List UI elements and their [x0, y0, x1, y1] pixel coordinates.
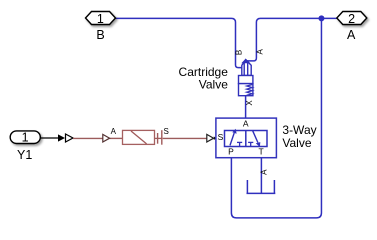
wire: cartridge valve A port up and right to port A hexagon	[246, 18, 337, 61]
svg-text:A: A	[347, 28, 356, 42]
svg-text:T: T	[258, 146, 263, 156]
svg-text:S: S	[218, 132, 224, 142]
svg-text:A: A	[256, 48, 265, 54]
open triangle at red block input A	[103, 134, 110, 142]
port B hexagon (Inport 1)	[86, 12, 116, 25]
junction dot on wire near port A	[318, 15, 324, 21]
cartridge valve U1: spring box	[239, 84, 253, 96]
svg-text:X: X	[245, 100, 254, 106]
wire stub from triangle A into red block	[109, 137, 122, 139]
svg-text:3-Way: 3-Way	[282, 123, 316, 137]
svg-text:A: A	[111, 127, 117, 136]
left box blocked port tee	[237, 141, 242, 143]
wire: cartridge valve X port down to 3-way valve A port	[245, 96, 247, 118]
svg-text:1: 1	[22, 131, 29, 145]
svg-text:S: S	[164, 127, 169, 136]
svg-text:Valve: Valve	[282, 136, 311, 150]
svg-text:B: B	[235, 50, 244, 55]
3-way valve inner divider	[245, 131, 247, 147]
svg-text:Y1: Y1	[17, 148, 32, 162]
open triangle port marker after arrow	[66, 134, 74, 142]
wire: big loop from junction down, across bottom, to 3-way valve P port	[231, 18, 321, 218]
red block diagonal line	[131, 131, 147, 144]
svg-text:1: 1	[97, 12, 104, 26]
svg-text:Valve: Valve	[199, 78, 228, 92]
wire: port B to cartridge valve B port (hydraulic, blue)	[116, 18, 242, 67]
right box flow arrow (down)	[253, 131, 258, 143]
red block output stub	[155, 137, 163, 139]
svg-text:2: 2	[348, 12, 355, 26]
svg-text:A: A	[243, 118, 249, 128]
3-way valve inner symbol rectangle	[225, 131, 268, 147]
cartridge valve U1: spring zigzag	[247, 85, 253, 96]
right box blocked port tee	[248, 141, 253, 143]
port A hexagon (Inport 2)	[337, 12, 367, 25]
cartridge valve U1: middle chamber box	[239, 76, 253, 84]
solid port marker on 3-way valve edge	[214, 136, 217, 140]
svg-text:A: A	[259, 169, 268, 175]
tank (hydraulic reference) symbol	[247, 180, 276, 193]
red block output double bars	[157, 133, 159, 144]
physical signal wire to red block (pale red)	[73, 137, 103, 139]
signal wire from Y1 (black)	[40, 137, 59, 139]
svg-text:B: B	[96, 28, 104, 42]
solid arrowhead on signal wire	[58, 134, 65, 141]
left box flow arrow (up)	[230, 133, 234, 145]
open triangle at 3-way valve S input	[207, 134, 214, 142]
svg-text:P: P	[228, 146, 234, 156]
red block (valve actuator) body	[123, 130, 155, 144]
input port Y1 (stadium block)	[10, 131, 40, 144]
physical signal wire from red block to 3-way valve (pale red)	[163, 137, 207, 139]
3-way valve block outer rectangle	[216, 118, 277, 158]
cartridge valve U1: poppet pentagon	[242, 60, 251, 76]
wire: 3-way valve T port down to tank	[260, 158, 262, 194]
